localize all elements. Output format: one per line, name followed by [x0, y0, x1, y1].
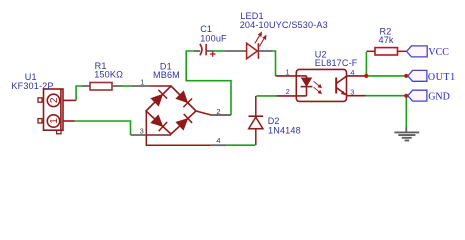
- svg-text:4: 4: [350, 68, 354, 77]
- pin 1 lead: [131, 85, 151, 87]
- body: [296, 69, 346, 101]
- wire U1 pin1 to D1 pin3: [75, 121, 131, 135]
- wire C1 to LED1: [213, 50, 224, 52]
- wire R2 to junction: [365, 52, 367, 76]
- inner LED: [296, 75, 306, 77]
- svg-text:100uF: 100uF: [200, 33, 227, 43]
- pin 2 lead: [277, 95, 297, 97]
- pin 3 lead: [145, 111, 147, 135]
- svg-text:150KΩ: 150KΩ: [94, 70, 123, 80]
- earth ground: [394, 132, 419, 140]
- diode bottom-right: [176, 114, 193, 131]
- svg-text:OUT1: OUT1: [428, 72, 456, 83]
- wire D1 pin4 to D2 anode: [226, 144, 255, 146]
- wire D2 cathode to U2 pin2: [257, 95, 277, 97]
- bridge rectifier D1 MB6M: [131, 86, 232, 145]
- wire U1 pin2 to R1: [76, 86, 82, 100]
- connector U1 KF301-2P: [38, 89, 76, 134]
- pin 1 lead: [276, 75, 297, 77]
- svg-text:2: 2: [49, 97, 60, 103]
- junction dot at OUT1: [404, 74, 408, 78]
- svg-text:2: 2: [216, 107, 220, 116]
- pin 4 lead: [146, 135, 211, 145]
- svg-text:3: 3: [140, 126, 144, 135]
- wire R1 to D1 pin1: [122, 85, 131, 87]
- diode D2 1N4148: [249, 96, 264, 145]
- diode bottom-left: [151, 115, 168, 132]
- wire U2 pin3 to GND: [366, 95, 405, 97]
- diode top-left: [151, 90, 168, 107]
- pin 3 lead: [347, 95, 366, 97]
- phototransistor: [335, 78, 337, 94]
- svg-text:1: 1: [49, 118, 60, 124]
- svg-text:GND: GND: [428, 91, 450, 102]
- svg-text:2: 2: [286, 87, 290, 96]
- svg-text:MB6M: MB6M: [153, 70, 180, 80]
- light arrows: [314, 81, 322, 93]
- svg-text:VCC: VCC: [428, 47, 449, 58]
- svg-text:EL817C-F: EL817C-F: [315, 58, 358, 68]
- port VCC: [407, 46, 428, 57]
- svg-text:4: 4: [216, 136, 220, 145]
- wire LED1 to U2 pin1: [272, 51, 276, 76]
- svg-text:3: 3: [350, 87, 354, 96]
- port OUT1: [408, 70, 427, 81]
- port GND: [408, 90, 427, 101]
- resistor R1: [82, 85, 90, 87]
- svg-text:204-10UYC/S530-A3: 204-10UYC/S530-A3: [240, 20, 328, 30]
- resistor R2: [366, 50, 375, 52]
- diamond body: [146, 86, 196, 134]
- wire GND to earth: [405, 96, 407, 128]
- svg-text:1N4148: 1N4148: [268, 125, 301, 135]
- diode top-right: [176, 91, 193, 108]
- pin 4 lead: [347, 75, 367, 77]
- optocoupler U2 EL817C-F: [276, 69, 367, 101]
- svg-text:47k: 47k: [379, 35, 394, 45]
- capacitor C1: [193, 50, 200, 52]
- LED LED1: [224, 50, 246, 52]
- arrows of LED1: [255, 33, 266, 47]
- wire D1 pin2 to top rail: [186, 51, 231, 115]
- junction dot U2 pin4: [364, 74, 368, 78]
- svg-text:1: 1: [285, 68, 289, 77]
- junction dot at GND: [404, 94, 408, 98]
- svg-text:KF301-2P: KF301-2P: [11, 81, 53, 91]
- pin 2 lead: [196, 111, 231, 115]
- wire junction to OUT1: [366, 75, 405, 77]
- svg-text:1: 1: [140, 77, 144, 86]
- plus sign of C1: [210, 51, 216, 57]
